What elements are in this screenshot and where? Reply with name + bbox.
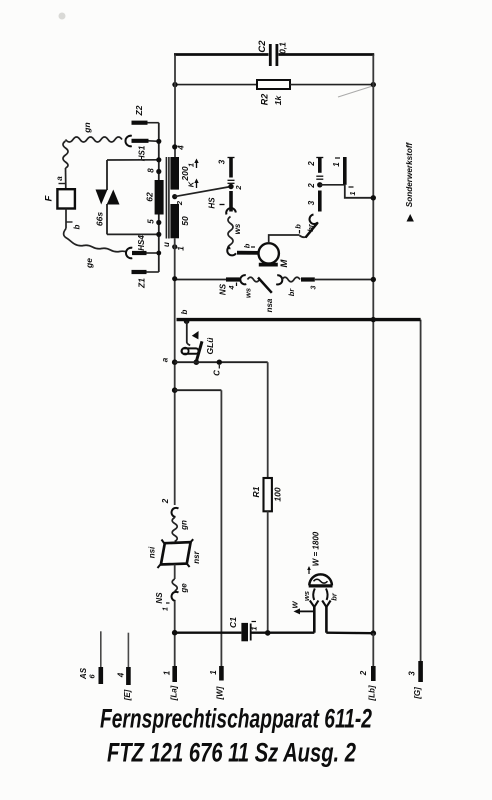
marker Sonderwerkstoff [405, 142, 414, 222]
wire R2 right [290, 84, 373, 86]
contact column 1 [343, 157, 347, 185]
svg-text:[Lb]: [Lb] [368, 685, 377, 701]
junction HS1 node [156, 139, 161, 144]
bar to motor [237, 251, 258, 255]
svg-text:2: 2 [359, 670, 368, 676]
resistor R1 [264, 478, 272, 511]
terminal Z2 [132, 121, 159, 125]
bell clapper left [310, 589, 319, 608]
contact hook lower [227, 247, 236, 256]
bell wire right [325, 605, 328, 633]
junction node [172, 276, 177, 281]
contact bar lower [318, 191, 322, 212]
bottom bus mid [251, 632, 315, 634]
svg-text:8: 8 [147, 168, 156, 173]
coil ws wavy [228, 217, 233, 249]
motor M [259, 243, 279, 264]
terminal bar [301, 277, 315, 281]
svg-text:ge: ge [180, 583, 189, 594]
svg-text:nsi: nsi [148, 546, 157, 558]
lamp GLü [182, 321, 203, 365]
wire junction link [320, 184, 345, 186]
wire column1 to right bus [345, 185, 374, 198]
svg-text:1: 1 [162, 607, 169, 611]
svg-text:[E]: [E] [123, 689, 132, 701]
svg-text:W = 1800: W = 1800 [312, 531, 321, 566]
svg-text:M: M [279, 258, 290, 267]
svg-text:[W]: [W] [216, 686, 225, 700]
svg-text:NS: NS [155, 592, 164, 604]
svg-text:4: 4 [117, 672, 126, 678]
svg-text:ws: ws [243, 288, 252, 298]
label NS 4 [219, 283, 237, 296]
svg-text:b: b [293, 224, 302, 229]
node a [172, 359, 178, 365]
wire motor top [269, 235, 300, 243]
node C [217, 360, 222, 369]
svg-text:HS4: HS4 [137, 235, 146, 251]
coil wavy [282, 277, 300, 282]
svg-text:W: W [290, 601, 299, 609]
cord ge wavy [172, 579, 177, 591]
svg-text:C2: C2 [257, 40, 268, 53]
svg-text:66s: 66s [95, 212, 105, 226]
pin 8 [156, 169, 161, 174]
capacitor C1 [241, 623, 250, 641]
bell W dome [309, 574, 333, 586]
wire left vertical x=175 top [174, 55, 176, 158]
svg-text:ws: ws [233, 223, 242, 234]
svg-text:2: 2 [161, 498, 170, 504]
wire top bus right of C2 [279, 53, 375, 56]
junction node [156, 157, 161, 162]
contact ws hook [226, 208, 236, 214]
bottom bus left [175, 632, 242, 634]
thick mid line [177, 318, 421, 321]
wire main vertical mid [174, 238, 176, 505]
contact bar [229, 191, 233, 212]
coil wavy [248, 277, 260, 282]
junction dot R2-left node [172, 82, 177, 87]
svg-text:nsa: nsa [265, 298, 274, 312]
label 1 with tick [348, 187, 357, 196]
svg-text:C: C [213, 370, 222, 376]
terminal (G) [418, 661, 423, 682]
pin 5 [156, 220, 161, 225]
contact column 2/2/3 [316, 157, 323, 179]
wire R1 branch vertical lower [267, 511, 269, 633]
svg-text:FTZ 121 676 11 Sz Ausg. 2: FTZ 121 676 11 Sz Ausg. 2 [107, 738, 356, 768]
svg-text:3: 3 [408, 671, 417, 676]
svg-text:1: 1 [209, 670, 218, 675]
dial contacts nsi/nsr block [158, 539, 194, 568]
svg-text:b: b [73, 224, 82, 229]
transformer winding 200 [170, 157, 179, 190]
terminal Z1 [132, 271, 159, 273]
svg-text:2: 2 [307, 183, 316, 189]
label W = 1800 [307, 531, 320, 574]
pin 4 [172, 144, 177, 149]
terminal (La) [172, 666, 177, 682]
wire ge flexible cord [64, 229, 127, 253]
svg-text:[La]: [La] [170, 685, 179, 701]
wire node a to relay F [59, 168, 66, 189]
label 1 [332, 158, 341, 167]
terminal (W) [219, 666, 224, 681]
diode branch wire bottom [107, 233, 159, 235]
terminal 4 (E) [127, 633, 129, 685]
wire transformer left bus [158, 123, 160, 272]
svg-text:ge: ge [84, 258, 94, 269]
svg-text:Z1: Z1 [137, 278, 147, 289]
svg-text:50: 50 [180, 216, 190, 226]
wire R2 left [175, 84, 257, 86]
svg-text:br: br [287, 288, 296, 297]
transformer winding 50 [170, 204, 179, 238]
pin 2 winding node [172, 194, 177, 199]
junction node bus-La [172, 630, 178, 636]
junction node bus-Lb [371, 630, 377, 636]
contact br arm [300, 215, 319, 238]
wire W column vertical [220, 390, 222, 666]
svg-text:gn: gn [180, 520, 189, 531]
junction node [371, 317, 376, 322]
terminal (Lb) [372, 633, 374, 681]
svg-text:4: 4 [229, 285, 236, 290]
junction HS4 node [156, 251, 161, 256]
svg-text:u: u [162, 242, 171, 247]
svg-text:Fernsprechtischapparat 611-2: Fernsprechtischapparat 611-2 [100, 704, 372, 734]
wire node b below relay F [66, 209, 73, 229]
svg-text:a: a [55, 176, 64, 181]
svg-text:HS: HS [208, 197, 217, 209]
label HS [208, 197, 225, 209]
svg-text:b: b [180, 309, 189, 314]
contact HS4 [126, 248, 159, 259]
svg-text:HS1: HS1 [138, 145, 147, 161]
contact gn hook [172, 508, 179, 517]
label K arrow [186, 179, 198, 189]
svg-text:1: 1 [348, 191, 357, 195]
svg-text:1: 1 [249, 626, 258, 630]
bell clapper right [322, 589, 330, 608]
wire below nsi [174, 565, 176, 580]
contact nsa arm [258, 278, 272, 293]
contact column 3/2 left [228, 157, 235, 183]
junction node [371, 277, 376, 282]
relay F [57, 189, 75, 208]
svg-text:R2: R2 [259, 94, 269, 106]
transformer core [166, 157, 169, 239]
bell wire left [313, 607, 316, 633]
svg-text:br: br [329, 592, 338, 601]
svg-text:[G]: [G] [413, 687, 422, 700]
label b with tick [242, 243, 255, 248]
wire La column lower [174, 601, 176, 667]
speck artifact top-left [59, 13, 66, 20]
wire gn flexible cord [63, 137, 122, 168]
wire pin2 to contact column [175, 187, 231, 197]
junction node [317, 182, 322, 187]
label b with tick [293, 224, 302, 234]
junction node [156, 232, 161, 237]
arrow W [290, 601, 314, 615]
svg-text:1k: 1k [273, 95, 283, 106]
svg-text:K: K [186, 181, 195, 187]
wire branch to W column [175, 389, 222, 391]
svg-text:ws: ws [302, 591, 311, 601]
resistor R2 [257, 80, 290, 89]
bottom bus right [326, 632, 373, 635]
svg-text:C1: C1 [228, 617, 238, 628]
svg-text:62: 62 [145, 192, 155, 202]
svg-text:a: a [161, 357, 170, 362]
svg-text:3: 3 [310, 285, 317, 289]
junction node [228, 184, 233, 189]
wire top bus left of C2 [174, 53, 269, 56]
svg-text:Sonderwerkstoff: Sonderwerkstoff [405, 142, 414, 208]
contact NS hook [172, 592, 179, 601]
pin U / 1 [172, 244, 177, 249]
contact HS1 [125, 136, 158, 147]
svg-text:2: 2 [234, 185, 243, 191]
label y arrow [186, 159, 198, 169]
junction dot R2-right node [371, 82, 376, 87]
svg-text:200: 200 [180, 166, 190, 181]
svg-text:4: 4 [177, 145, 186, 151]
svg-text:0,1: 0,1 [278, 42, 288, 54]
node branch W [172, 387, 178, 393]
terminal AS 6 [100, 631, 102, 684]
junction node [371, 195, 376, 200]
svg-text:GLü: GLü [205, 337, 215, 355]
node b [184, 318, 190, 324]
svg-text:1: 1 [186, 163, 195, 167]
wire R1 branch vertical upper [267, 362, 269, 478]
svg-text:gn: gn [82, 122, 92, 133]
svg-text:Z2: Z2 [134, 105, 144, 116]
svg-text:2: 2 [175, 200, 184, 206]
svg-text:3: 3 [218, 159, 227, 164]
svg-text:1: 1 [332, 162, 341, 167]
wire NS row [175, 279, 226, 281]
wire far-right vertical to (G) [420, 320, 422, 662]
contact br hook [276, 275, 282, 284]
svg-text:nsr: nsr [192, 550, 201, 563]
value 1 [249, 622, 258, 631]
wire right bus x=373 [372, 55, 374, 634]
svg-text:NS: NS [219, 283, 228, 295]
svg-text:b: b [242, 243, 251, 248]
terminal NS bar [226, 277, 240, 281]
junction node R1-bus [265, 630, 271, 636]
svg-text:3: 3 [307, 200, 316, 205]
svg-text:5: 5 [147, 219, 156, 224]
svg-text:R1: R1 [251, 486, 261, 497]
scan artifact lead line [338, 87, 371, 98]
svg-text:1: 1 [163, 670, 172, 675]
diode 66s [96, 160, 120, 234]
svg-text:br: br [306, 223, 315, 232]
svg-text:F: F [44, 195, 55, 201]
wire a row [175, 361, 268, 363]
svg-text:1: 1 [177, 246, 186, 251]
svg-text:100: 100 [273, 487, 283, 501]
diode 66s branch wire top [107, 159, 159, 161]
contact ws hook [240, 275, 246, 284]
label NS 1 [155, 592, 169, 611]
capacitor C2 [270, 44, 277, 66]
svg-text:2: 2 [307, 161, 316, 167]
wire NS row right [315, 279, 374, 281]
transformer winding 62 [155, 180, 164, 215]
cord gn wavy [172, 518, 177, 542]
